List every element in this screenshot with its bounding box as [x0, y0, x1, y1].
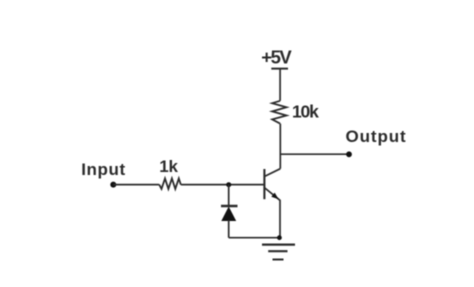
svg-text:1k: 1k — [159, 157, 178, 176]
node base junction dot — [226, 182, 231, 187]
transistor Q1 collector — [264, 169, 280, 177]
svg-text:Input: Input — [81, 160, 126, 179]
wire output branch — [280, 153, 349, 155]
diode D1 anode lead — [228, 220, 230, 238]
power bar VCC — [271, 68, 288, 70]
svg-text:+5V: +5V — [261, 47, 292, 68]
wire input to R1 — [113, 184, 159, 186]
wire diode to ground junction — [229, 237, 280, 239]
wire emitter down — [279, 200, 281, 238]
svg-text:Output: Output — [346, 127, 407, 146]
transistor Q1 emitter — [264, 188, 280, 201]
transistor Q1 emitter arrow — [271, 193, 278, 200]
transistor Q1 base bar — [263, 169, 265, 199]
ground symbol — [262, 245, 295, 260]
resistor R1 — [159, 179, 181, 189]
wire base junction to diode — [228, 185, 230, 206]
node input dot — [110, 182, 116, 188]
wire R1 to base — [181, 184, 264, 186]
diode D1 triangle — [221, 207, 236, 222]
node ground junction dot — [277, 235, 282, 240]
svg-text:10k: 10k — [292, 102, 319, 122]
diode D1 cathode bar — [221, 205, 238, 207]
wire R2 bottom to collector — [279, 124, 281, 169]
node output dot — [346, 151, 352, 157]
resistor R2 — [272, 101, 286, 124]
wire VCC to R2 top — [279, 69, 281, 101]
